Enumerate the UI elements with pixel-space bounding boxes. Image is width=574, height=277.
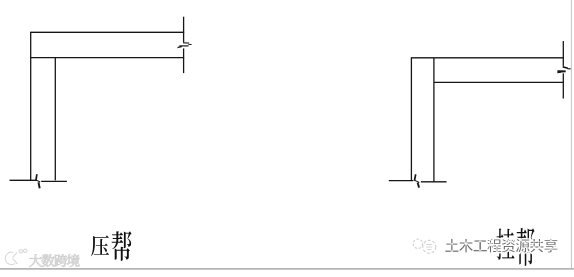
right figure: column-bottom break zigzag up-tick [414, 174, 415, 181]
left figure: column-bottom break line (right segment) [41, 180, 67, 182]
left figure: column inner line [54, 58, 56, 181]
watermark text halo layer [445, 239, 558, 253]
right figure: beam top chord [411, 57, 564, 59]
watermark logo: large circle [423, 240, 436, 253]
left figure: beam bottom chord [31, 57, 185, 59]
right figure: beam-end break symbol [557, 66, 571, 73]
left figure: beam top chord [31, 31, 185, 33]
left label: 帮 [112, 231, 132, 261]
left figure: beam-end break vertical (lower) [183, 48, 185, 73]
right figure: beam-end break vertical (upper) [562, 41, 564, 66]
left figure: column-bottom break zigzag down-tick [39, 182, 40, 188]
left figure: beam-end break vertical (upper) [183, 17, 185, 43]
bottom-left watermark text: 大数跨境 [29, 254, 79, 267]
right figure: column inner line [433, 58, 435, 182]
right figure: column-bottom break line (left segment) [389, 180, 413, 182]
right figure: column-bottom break zigzag down-tick [418, 183, 420, 188]
right figure: column-bottom break line (right segment) [421, 181, 447, 183]
left figure: beam-end break symbol [177, 42, 192, 48]
right figure: beam-end break vertical (lower) [562, 73, 564, 98]
watermark text: 土木工程资源共享 [445, 239, 558, 253]
right figure: column-bottom break zigzag diagonal [415, 180, 420, 182]
left figure: column-bottom break line (left segment) [10, 179, 37, 181]
right figure: column outer line [410, 57, 412, 180]
left label: 压 [91, 235, 109, 256]
watermark logo: inner marks [426, 245, 432, 250]
right label: 挂 [496, 229, 514, 260]
left figure: column outer line [30, 32, 32, 181]
bottom-left logo mark [5, 249, 27, 264]
watermark logo: small circle [413, 239, 422, 248]
bottom divider line [0, 268, 574, 269]
left figure: column-bottom break zigzag diagonal [36, 180, 40, 182]
right border line [571, 0, 572, 268]
left figure: column-bottom break zigzag up-tick [36, 174, 37, 180]
right label: 帮 [517, 228, 535, 266]
right figure: beam bottom chord [434, 81, 564, 83]
